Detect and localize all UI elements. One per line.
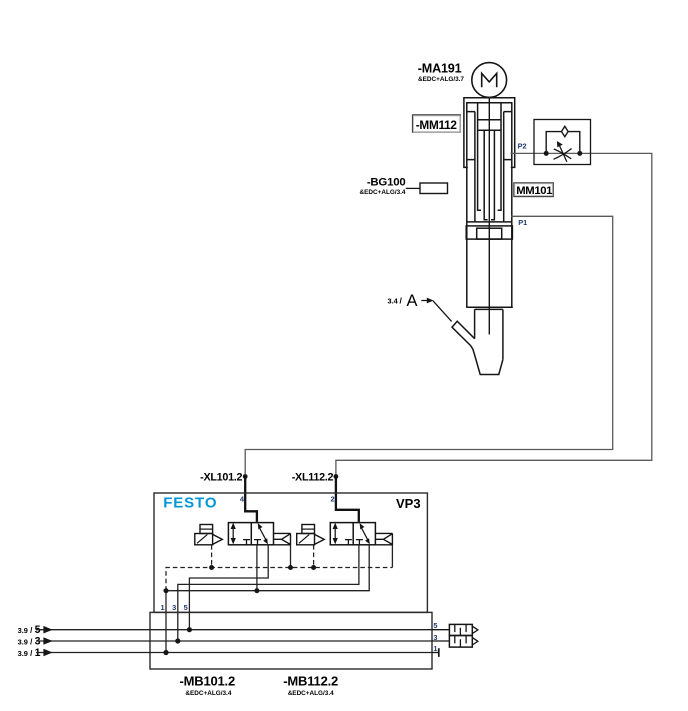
svg-text:-XL101.2: -XL101.2	[200, 472, 242, 484]
cylinder head flange outer	[464, 98, 515, 168]
manifold block	[150, 612, 432, 669]
svg-text:VP3: VP3	[396, 496, 421, 511]
svg-text:-MB112.2: -MB112.2	[283, 673, 338, 688]
svg-text:&EDC+ALG/3.4: &EDC+ALG/3.4	[360, 189, 406, 196]
svg-text:MM101: MM101	[516, 185, 552, 197]
node: valve1 port1 junction	[254, 588, 259, 593]
valve1 body squares	[228, 523, 273, 545]
throttle adjust arrow	[560, 146, 567, 162]
node XL101.2	[243, 474, 248, 479]
check valve diamond	[562, 126, 569, 136]
node: rail1 top junction	[164, 588, 169, 593]
node: rail 3 junction	[175, 638, 180, 643]
flow control enclosure	[534, 120, 591, 165]
cylinder crossbars	[478, 120, 501, 130]
cylinder base rect	[466, 226, 512, 239]
valve1 pilot box	[195, 525, 291, 546]
wire XL112.2 into valve 2 port 2	[336, 477, 359, 522]
valve2 pilot box	[297, 525, 393, 546]
svg-text:5: 5	[184, 603, 188, 612]
node: spring junction valve1	[288, 565, 293, 570]
svg-text:-MA191: -MA191	[418, 62, 462, 76]
throttle arcs	[554, 149, 572, 160]
valve2 spring return	[375, 533, 392, 545]
flow control valve (one-way)	[534, 120, 591, 165]
wire rail1 drop	[165, 591, 167, 653]
valve1 solenoid	[195, 534, 213, 545]
svg-text:P1: P1	[518, 218, 527, 227]
svg-text:&EDC+ALG/3.7: &EDC+ALG/3.7	[418, 76, 464, 83]
valve1 flow arrows (left square)	[232, 526, 234, 542]
node: pilot junction valve1	[209, 565, 214, 570]
valve 2 (-MB112.2) 3/2-way solenoid valve	[330, 523, 375, 545]
cylinder inner walls	[467, 103, 512, 308]
supply line 3.9/5	[18, 624, 432, 636]
silencer on port 5	[432, 624, 478, 635]
node XL112.2	[334, 474, 339, 479]
label A 3.4 with arrow	[388, 292, 452, 321]
svg-text:3: 3	[172, 603, 176, 612]
svg-text:1: 1	[160, 603, 164, 612]
supply line 3.9/3	[18, 636, 432, 648]
svg-text:3.4: 3.4	[388, 297, 399, 306]
valve2 pilot triangle	[315, 534, 325, 544]
nozzle neck	[475, 308, 503, 310]
svg-text:FESTO: FESTO	[163, 495, 217, 512]
svg-text:-BG100: -BG100	[367, 176, 406, 188]
wire valve1 exhaust to rail 5	[189, 545, 268, 630]
sensor -BG100	[406, 183, 448, 194]
valve terminal VP3 enclosure	[154, 493, 427, 612]
blind plug on port 1	[432, 648, 439, 657]
cylinder inner tube	[484, 130, 494, 220]
svg-text:A: A	[407, 292, 418, 310]
svg-text:-XL112.2: -XL112.2	[292, 472, 334, 484]
wire P2 line	[336, 153, 652, 476]
valve 1 (-MB101.2) 3/2-way solenoid valve	[228, 523, 273, 545]
suction tube (angled fitting)	[452, 321, 475, 346]
silencer on port 3	[432, 636, 478, 648]
valve1 pilot drop (dashed)	[211, 545, 213, 568]
valve1 arrowheads	[231, 523, 268, 545]
supply line 3.9/1	[18, 647, 432, 659]
valve2 right square exhaust T	[356, 540, 363, 545]
svg-text:-MM112: -MM112	[416, 118, 458, 132]
valve1 spring drop	[290, 545, 292, 568]
pilot supply line (dashed)	[166, 545, 392, 591]
svg-text:-MB101.2: -MB101.2	[180, 673, 235, 688]
cylinder pocket left	[467, 112, 475, 222]
motor U1 (-MA191)	[472, 63, 507, 98]
cylinder lower body bottom	[466, 306, 513, 308]
label -BG100	[360, 176, 406, 196]
wire XL101.2 into valve 1 port 4	[245, 477, 257, 522]
valve1 pilot triangle	[213, 534, 223, 544]
cylinder base inner rect	[477, 228, 502, 239]
wire valve2 left port to rail 3	[178, 545, 359, 641]
cylinder assembly (linear drive with nozzle)	[463, 98, 515, 375]
nozzle funnel outline	[471, 346, 503, 375]
label -MA191	[418, 62, 465, 83]
valve1 left square exhaust T	[243, 540, 250, 545]
valve2 diagonal flow path	[361, 528, 368, 541]
valve2 spring drop	[391, 545, 393, 568]
cylinder pocket right	[504, 112, 512, 222]
valve2 left square exhaust T	[345, 540, 352, 545]
wire supply rail h3	[166, 545, 369, 591]
label MM101	[514, 183, 554, 197]
piston plate line	[467, 221, 512, 223]
valve2 pilot drop (dashed)	[313, 545, 315, 568]
wire P1 line	[245, 216, 613, 476]
node: rail 5 junction	[187, 627, 192, 632]
node: FCV left junction	[544, 151, 549, 156]
valve1 diagonal flow path	[259, 528, 266, 541]
valve2 body squares	[330, 523, 375, 545]
bypass branch	[546, 132, 580, 154]
wire valve1 port1 drop to supply rail	[256, 545, 258, 591]
piston rod	[488, 98, 490, 335]
node: FCV right junction	[577, 151, 582, 156]
cylinder mid tube	[478, 103, 501, 211]
valve2 flow arrows (left square)	[334, 526, 336, 542]
svg-text:2: 2	[330, 495, 334, 504]
valve2 arrowheads	[333, 523, 370, 545]
node: pilot junction valve2	[311, 565, 316, 570]
valve1 spring return	[274, 533, 291, 545]
valve1 right square exhaust T	[254, 540, 261, 545]
svg-text:&EDC+ALG/3.4: &EDC+ALG/3.4	[185, 690, 231, 697]
label -MM112	[413, 115, 461, 132]
svg-text:5: 5	[433, 621, 437, 630]
svg-text:&EDC+ALG/3.4: &EDC+ALG/3.4	[288, 690, 334, 697]
svg-text:P2: P2	[518, 141, 527, 150]
node: rail 1 junction	[163, 650, 168, 655]
valve2 solenoid	[297, 534, 315, 545]
